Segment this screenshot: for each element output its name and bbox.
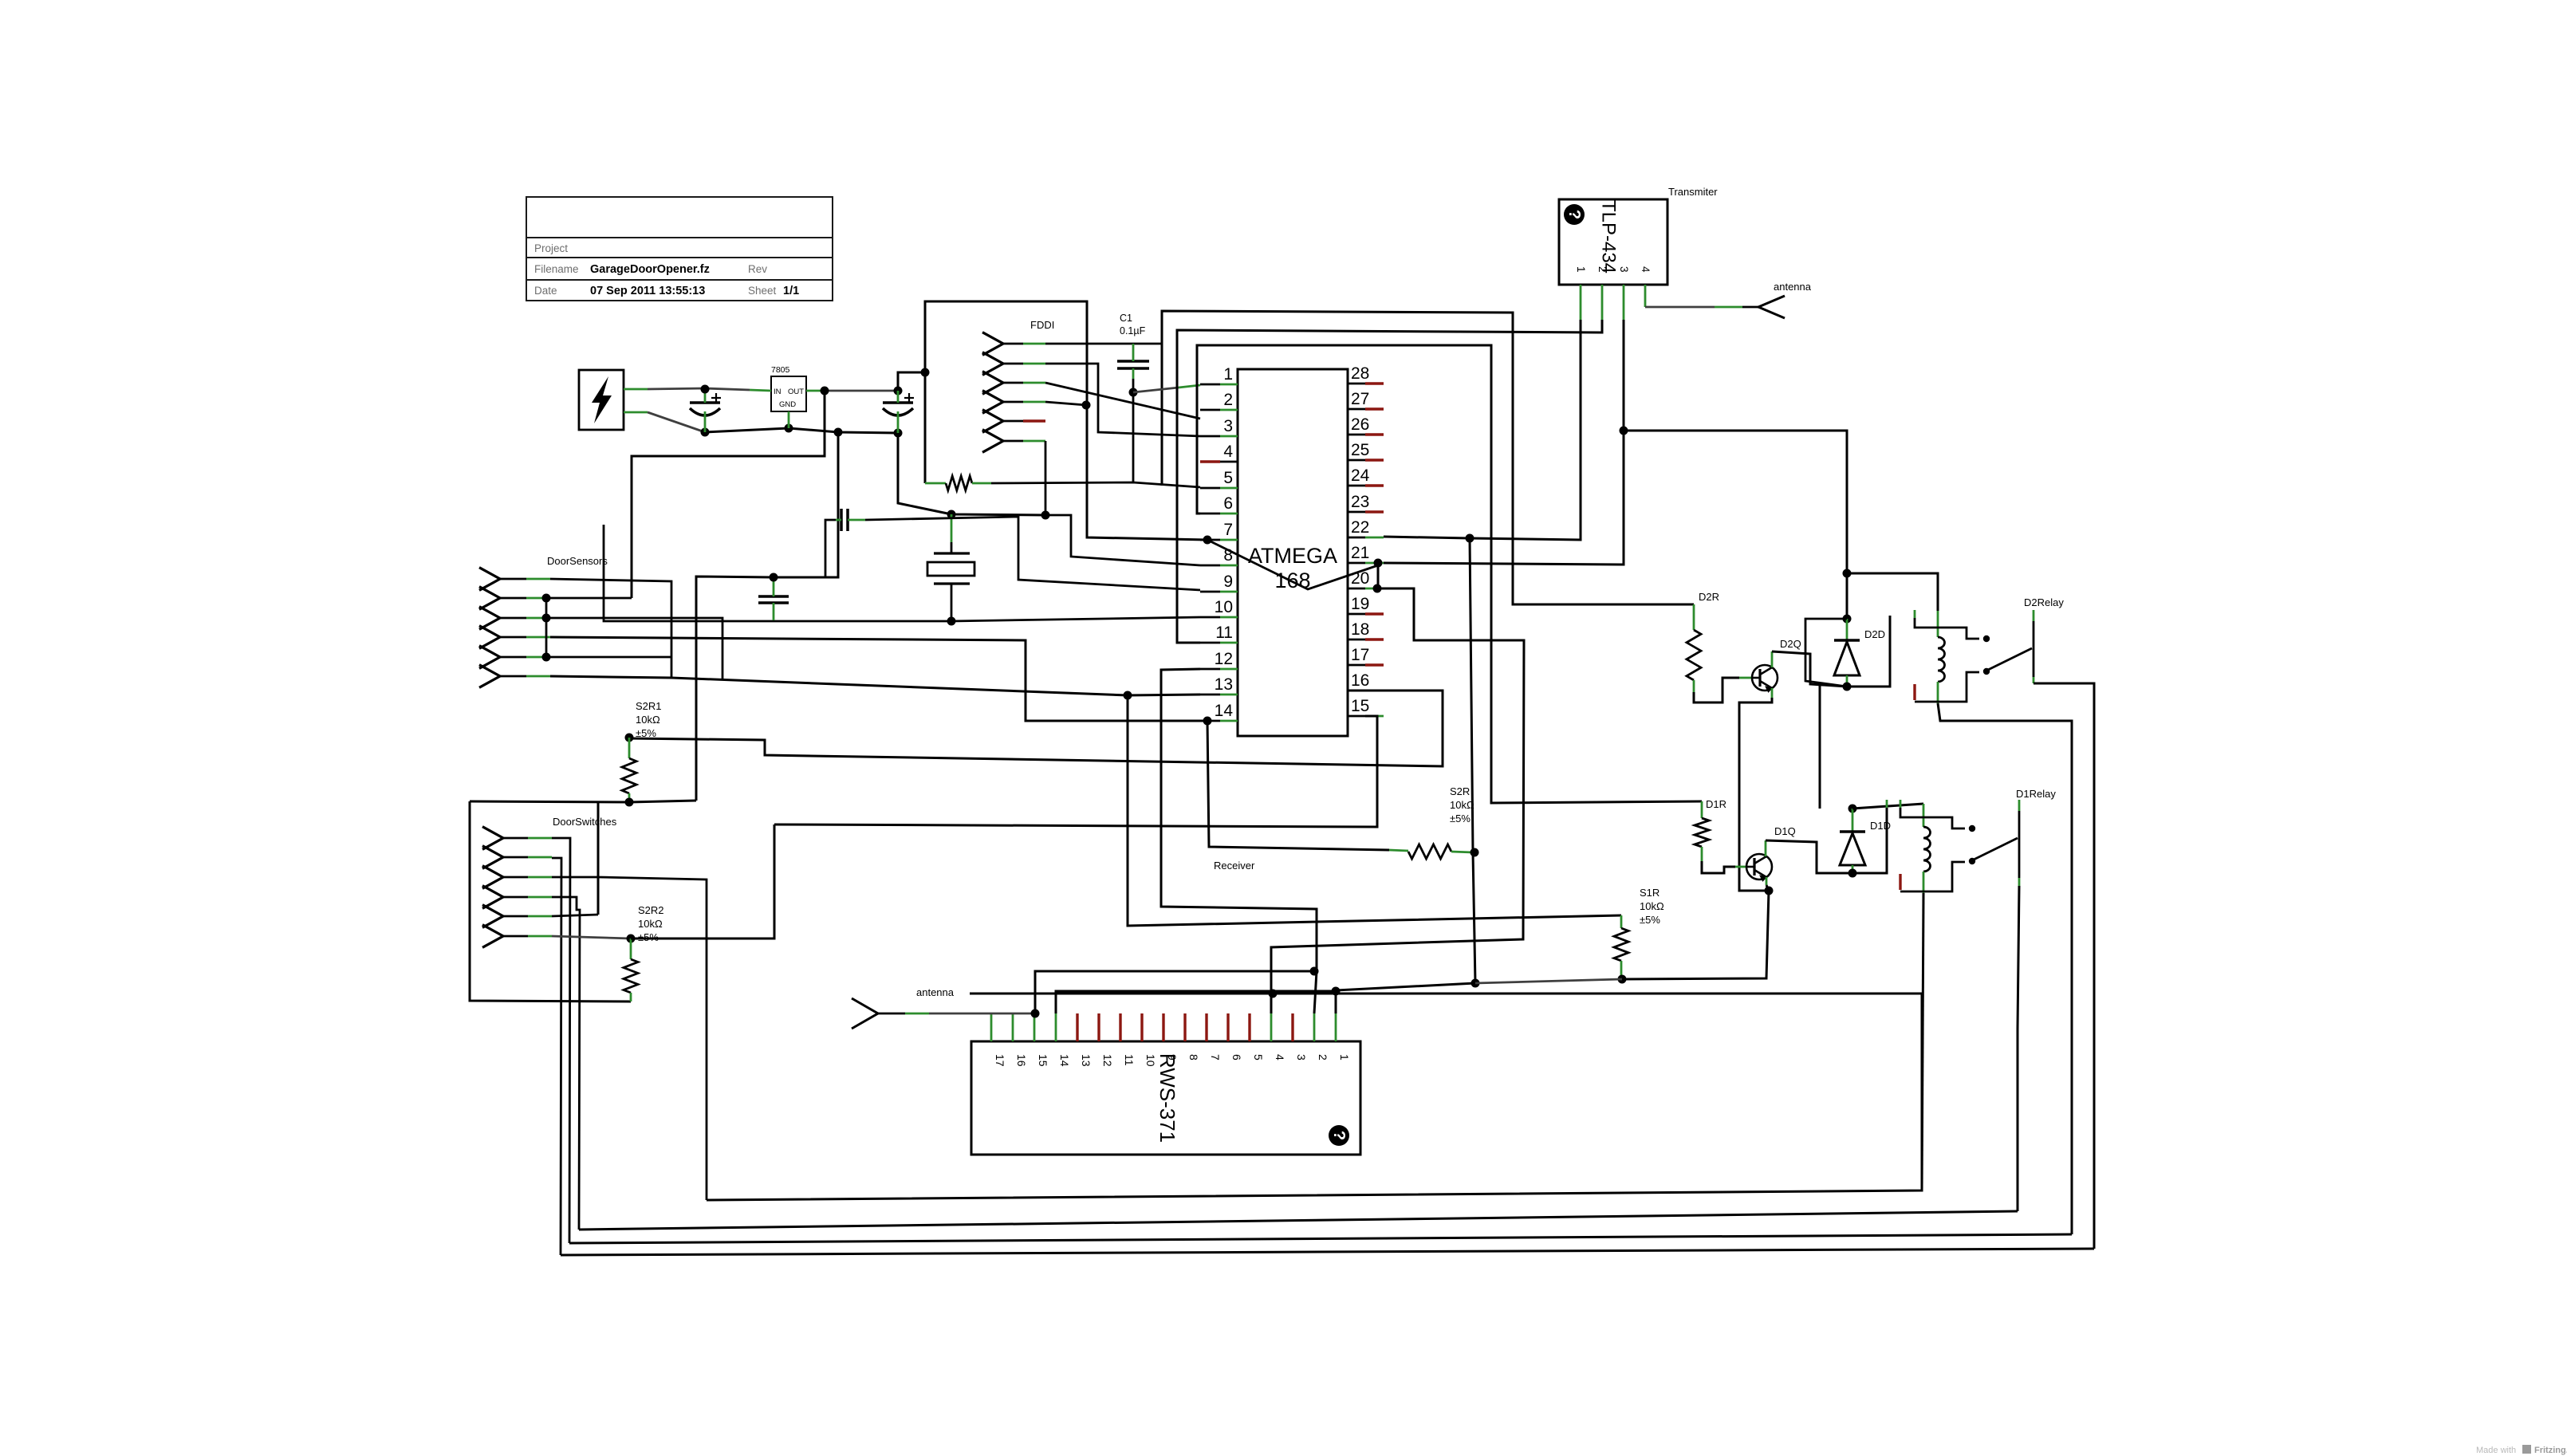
ATMEGA pin 13 bbox=[1200, 694, 1220, 696]
ic TLP-434 transmitter bbox=[1559, 199, 1667, 285]
wire TLP pin4 to antenna bbox=[1645, 306, 1715, 309]
wire RWS pin1 riser to D1Q emitter line bbox=[1336, 983, 1475, 1013]
ATMEGA pin 20 bbox=[1348, 588, 1365, 590]
svg-text:25: 25 bbox=[1351, 441, 1369, 459]
wire pin21 link down to pin20 bbox=[1373, 584, 1382, 593]
DoorSensors row5 wire bbox=[542, 653, 551, 662]
svg-text:OUT: OUT bbox=[788, 388, 804, 396]
wire ATMEGA pin21 to TLP pin3 bbox=[1384, 431, 1624, 565]
svg-text:16: 16 bbox=[1015, 1054, 1028, 1067]
svg-text:antenna: antenna bbox=[916, 986, 955, 998]
bus bottom line 3 bbox=[569, 1234, 2072, 1243]
ic RWS-371 receiver bbox=[971, 1041, 1360, 1155]
svg-text:±5%: ±5% bbox=[1640, 914, 1660, 926]
wire D1Q collector to D1D bottom bbox=[1765, 840, 1767, 856]
wire RWS pin15 hook to pin2 riser bbox=[1035, 971, 1314, 1013]
wire pin22 branch down through S2R junction bbox=[1470, 538, 1475, 983]
wire D2D bottom to relay pin bbox=[1847, 616, 1890, 687]
relay D2 armature bbox=[1986, 648, 2032, 671]
resistor S2R1 bbox=[625, 734, 634, 742]
svg-text:GarageDoorOpener.fz: GarageDoorOpener.fz bbox=[590, 263, 710, 276]
DoorSensors pin 2 bbox=[479, 587, 500, 610]
bus bottom line 2 bbox=[579, 1211, 2018, 1230]
DoorSwitches row4 wire down to bus L2 bbox=[552, 897, 580, 1230]
svg-text:RWS-371: RWS-371 bbox=[1156, 1053, 1179, 1143]
svg-text:15: 15 bbox=[1037, 1054, 1049, 1067]
svg-text:13: 13 bbox=[1215, 675, 1233, 694]
ATMEGA pin 6 bbox=[1200, 513, 1220, 515]
wire C4 top to cap C5 bbox=[774, 520, 836, 577]
DoorSensors pin 6 bbox=[479, 665, 500, 688]
wire D2D top left loop bbox=[1805, 619, 1847, 687]
capacitor C2 electrolytic bbox=[690, 401, 720, 404]
wire receiver antenna bbox=[878, 1013, 905, 1015]
svg-text:1: 1 bbox=[1223, 365, 1233, 384]
wire ATMEGA pin20 hook to RWS pin4 bbox=[1271, 588, 1524, 1013]
ATMEGA pin 4 bbox=[1200, 460, 1220, 462]
crystal X1 bbox=[934, 552, 970, 554]
svg-text:4: 4 bbox=[1640, 266, 1652, 273]
FDDI pin 2 bbox=[982, 352, 1003, 376]
svg-text:9: 9 bbox=[1223, 573, 1233, 591]
capacitor C3 electrolytic bbox=[883, 401, 913, 404]
ATMEGA pin 23 bbox=[1348, 511, 1365, 514]
ATMEGA pin 22 bbox=[1348, 537, 1365, 539]
relay D1 coil arcs bbox=[1923, 827, 1931, 872]
svg-text:Receiver: Receiver bbox=[1214, 860, 1255, 872]
svg-text:Made with: Made with bbox=[2476, 1446, 2516, 1455]
svg-text:Date: Date bbox=[534, 285, 557, 297]
svg-text:17: 17 bbox=[1351, 646, 1369, 664]
svg-text:16: 16 bbox=[1351, 671, 1369, 690]
svg-text:S2R: S2R bbox=[1450, 785, 1470, 797]
svg-text:Project: Project bbox=[534, 242, 568, 254]
svg-text:Filename: Filename bbox=[534, 263, 579, 275]
svg-text:19: 19 bbox=[1351, 595, 1369, 613]
wire gnd branch to cap C4 bbox=[774, 432, 838, 577]
FDDI pin 1 bbox=[982, 333, 1003, 356]
svg-text:2: 2 bbox=[1597, 266, 1608, 273]
FDDI loop wire: left edge, top, right edge to ATMEGA pin7 bbox=[925, 301, 1207, 540]
svg-text:10kΩ: 10kΩ bbox=[1450, 799, 1474, 811]
FDDI row1 wire bbox=[1045, 343, 1162, 345]
DoorSensors pin 1 bbox=[479, 568, 500, 591]
DoorSensors rows 2-3-5 link bbox=[545, 598, 548, 657]
title block frame bbox=[526, 197, 833, 301]
ATMEGA pin 11 bbox=[1200, 642, 1220, 644]
wire ATMEGA pin7 diagonal to pin21 bbox=[1203, 536, 1212, 545]
svg-text:10kΩ: 10kΩ bbox=[636, 714, 660, 726]
FDDI pin 6 bbox=[982, 430, 1003, 453]
wire cap C2 bottom stub bbox=[704, 411, 707, 432]
svg-text:4: 4 bbox=[1223, 443, 1233, 461]
svg-text:antenna: antenna bbox=[1774, 281, 1812, 293]
wire D1Q emitter junction bbox=[1766, 877, 1768, 885]
DoorSwitches pin 4 bbox=[482, 886, 503, 909]
svg-text:S2R1: S2R1 bbox=[636, 700, 662, 712]
FDDI row6 wire down to gnd rail bbox=[1045, 441, 1047, 514]
svg-text:28: 28 bbox=[1351, 364, 1369, 383]
svg-text:D1R: D1R bbox=[1706, 798, 1726, 810]
DoorSwitches pin 3 bbox=[482, 866, 503, 889]
svg-text:13: 13 bbox=[1080, 1054, 1093, 1067]
svg-text:DoorSwitches: DoorSwitches bbox=[553, 816, 617, 828]
wire D1 coil bottom to bus L1 bbox=[1922, 893, 1923, 1191]
wire D1D bottom to relay pin bbox=[1852, 808, 1887, 873]
wire 1246 line bbox=[970, 993, 1923, 995]
svg-text:Rev: Rev bbox=[748, 263, 767, 275]
svg-text:Transmiter: Transmiter bbox=[1668, 186, 1718, 198]
svg-text:Sheet: Sheet bbox=[748, 285, 777, 297]
svg-text:?: ? bbox=[1330, 1131, 1348, 1140]
ATMEGA pin 26 bbox=[1348, 434, 1365, 436]
wire ATMEGA pin16 hook to S2R1 bbox=[629, 691, 1443, 766]
ATMEGA pin 21 bbox=[1348, 562, 1365, 565]
wire 7805 OUT rail bbox=[806, 390, 825, 392]
wire gnd down to crystal rail bbox=[898, 433, 1045, 515]
wire cap C3 bottom stub bbox=[897, 411, 900, 433]
wire C1 bottom to pin5 line bbox=[1132, 379, 1135, 482]
wire rail riser to C4 gnd bbox=[696, 576, 774, 801]
wire 5V loop to DoorSensors row1 bbox=[632, 391, 825, 598]
wire D2 common down to bus L4 bbox=[2034, 683, 2094, 1249]
ground rail bbox=[705, 428, 898, 433]
wire ATMEGA pin22 to TLP pin1 bbox=[1384, 320, 1581, 540]
svg-text:S2R2: S2R2 bbox=[638, 904, 664, 916]
wire gnd rail diagonal to ATMEGA pin8 bbox=[1045, 515, 1200, 565]
wire cap C2 top stub bbox=[704, 389, 707, 403]
wire DoorSensors row4 to ATMEGA pin14 bbox=[1203, 717, 1212, 726]
FDDI pin 5 bbox=[982, 410, 1003, 433]
svg-text:D2Q: D2Q bbox=[1780, 638, 1801, 650]
svg-text:07 Sep 2011 13:55:13: 07 Sep 2011 13:55:13 bbox=[590, 285, 705, 297]
resistor D2R 10k bbox=[1693, 604, 1695, 630]
ATMEGA pin 16 bbox=[1348, 690, 1365, 692]
wire D2Q collector to D2D bottom bbox=[1771, 651, 1774, 667]
DoorSwitches pin 6 bbox=[482, 925, 503, 948]
relay D1 unconnected pin bbox=[1899, 874, 1901, 890]
ATMEGA pin 27 bbox=[1348, 408, 1365, 411]
svg-text:15: 15 bbox=[1351, 697, 1369, 715]
ATMEGA pin 17 bbox=[1348, 664, 1365, 667]
wire resistor to ATMEGA pin5 bbox=[991, 482, 1200, 487]
svg-text:17: 17 bbox=[994, 1054, 1006, 1067]
svg-text:0.1µF: 0.1µF bbox=[1120, 325, 1146, 336]
DoorSwitches pin 2 bbox=[482, 846, 503, 869]
wire D1D top to relay coil bbox=[1852, 804, 1923, 809]
FDDI pin 3 bbox=[982, 372, 1003, 395]
ATMEGA pin 28 bbox=[1348, 383, 1365, 385]
relay D1Relay coil bbox=[1923, 804, 1925, 827]
svg-text:4: 4 bbox=[1274, 1054, 1286, 1061]
svg-text:D2Relay: D2Relay bbox=[2024, 596, 2064, 608]
wire crystal bottom to ATMEGA pin10 bbox=[951, 617, 1200, 621]
gray wire S2R junction to S1R bottom bbox=[1475, 979, 1622, 983]
svg-text:3: 3 bbox=[1618, 266, 1630, 273]
svg-text:24: 24 bbox=[1351, 466, 1370, 485]
resistor D1R 10k bbox=[1701, 801, 1703, 818]
relay D2 common pin bbox=[2033, 610, 2035, 621]
ATMEGA pin 1 bbox=[1200, 384, 1220, 386]
svg-text:DoorSensors: DoorSensors bbox=[547, 555, 608, 567]
svg-text:22: 22 bbox=[1351, 518, 1369, 537]
capacitor C5 22pF bbox=[840, 509, 843, 531]
voltage regulator 7805 bbox=[771, 376, 806, 411]
wire cap C3 top stub bbox=[897, 391, 900, 403]
svg-text:1/1: 1/1 bbox=[783, 285, 799, 297]
svg-text:2: 2 bbox=[1223, 391, 1233, 409]
svg-text:S1R: S1R bbox=[1640, 887, 1659, 899]
FDDI row2 wire to ATMEGA pin3 bbox=[1045, 364, 1200, 436]
svg-text:10: 10 bbox=[1215, 598, 1233, 616]
wire rail drop to DoorSwitches row3 bbox=[597, 802, 600, 915]
resistor S1R zigzag bbox=[1614, 928, 1628, 961]
svg-text:7: 7 bbox=[1223, 521, 1233, 539]
DoorSwitches box loop bbox=[470, 801, 631, 1001]
bus bottom line 1 bbox=[707, 994, 1922, 1200]
DoorSensors row3 wire bbox=[542, 614, 551, 623]
transistor D2Q bbox=[1752, 665, 1778, 691]
relay D2 frame bottom bbox=[1915, 672, 1979, 702]
wire 7805 GND stub bbox=[788, 411, 790, 428]
svg-text:3: 3 bbox=[1223, 417, 1233, 435]
svg-text:D2R: D2R bbox=[1699, 591, 1719, 603]
relay D2 unconnected pin bbox=[1913, 684, 1915, 700]
svg-text:27: 27 bbox=[1351, 390, 1369, 408]
FDDI pin 4 bbox=[982, 391, 1003, 414]
relay D1 frame bottom bbox=[1900, 862, 1965, 891]
svg-text:9: 9 bbox=[1166, 1054, 1179, 1061]
ATMEGA pin 3 bbox=[1200, 435, 1220, 438]
DoorSensors pin 4 bbox=[479, 626, 500, 649]
ATMEGA pin 19 bbox=[1348, 613, 1365, 616]
DoorSwitches pin 1 bbox=[482, 827, 503, 850]
wire D1 common down to bus L2 bbox=[2018, 886, 2019, 1211]
wire ATMEGA pin12 to RWS pin2 bbox=[1161, 669, 1317, 1013]
svg-text:10kΩ: 10kΩ bbox=[638, 918, 663, 930]
svg-text:26: 26 bbox=[1351, 415, 1369, 434]
DoorSensors row1 wire bbox=[550, 579, 671, 678]
svg-text:D2D: D2D bbox=[1864, 628, 1885, 640]
DoorSwitches pin 5 bbox=[482, 905, 503, 928]
ic U1 ATMEGA 168 bbox=[1238, 369, 1348, 736]
svg-text:D1Relay: D1Relay bbox=[2016, 788, 2056, 800]
wire D2R bottom to D2Q base bbox=[1694, 678, 1739, 702]
wire power minus diagonal bbox=[624, 411, 648, 414]
ATMEGA pin 7 bbox=[1200, 539, 1220, 541]
svg-text:1: 1 bbox=[1575, 266, 1587, 273]
resistor S2R bbox=[1389, 850, 1408, 851]
svg-text:±5%: ±5% bbox=[636, 727, 656, 739]
wire S2R2 junction riser to 1034 run bbox=[631, 824, 774, 939]
svg-text:7805: 7805 bbox=[771, 365, 790, 375]
svg-text:IN: IN bbox=[774, 388, 782, 396]
svg-text:3: 3 bbox=[1295, 1054, 1308, 1061]
DoorSwitches row6 wire to S2R2 (gray) bbox=[552, 936, 631, 939]
svg-text:23: 23 bbox=[1351, 493, 1369, 511]
wire TLP pin3 riser bbox=[1623, 320, 1625, 431]
svg-text:7: 7 bbox=[1209, 1054, 1222, 1061]
ATMEGA pin 25 bbox=[1348, 459, 1365, 462]
ATMEGA pin 12 bbox=[1200, 668, 1220, 671]
DoorSwitches row2 wire down to bus L4 bbox=[552, 858, 561, 1255]
svg-text:D1Q: D1Q bbox=[1774, 825, 1796, 837]
svg-text:21: 21 bbox=[1351, 544, 1369, 562]
resistor R series FDDI bbox=[925, 482, 946, 485]
wire ATMEGA pin6 hook to D1R bbox=[1197, 345, 1702, 803]
svg-text:?: ? bbox=[1565, 210, 1583, 219]
svg-text:GND: GND bbox=[779, 400, 796, 409]
relay D1 frame top bbox=[1900, 800, 1902, 808]
svg-text:12: 12 bbox=[1101, 1054, 1114, 1067]
wire TLP pin3 down to relay net bbox=[1624, 431, 1938, 611]
relay D1 common pin bbox=[2018, 800, 2021, 811]
svg-text:1: 1 bbox=[1338, 1054, 1351, 1061]
svg-text:ATMEGA: ATMEGA bbox=[1248, 544, 1337, 568]
wire D2D bottom branch down to D1D top bbox=[1819, 685, 1821, 809]
svg-text:Fritzing.org: Fritzing.org bbox=[2534, 1446, 2567, 1455]
DoorSwitches row3 wire to bus L1 bbox=[552, 877, 707, 1200]
svg-text:10: 10 bbox=[1144, 1054, 1157, 1067]
relay D2Relay coil bbox=[1937, 611, 1939, 637]
ATMEGA pin 18 bbox=[1348, 639, 1365, 641]
wire ATMEGA pin15 to 1034 run bbox=[774, 716, 1377, 827]
wire OUT rail to FDDI loop bbox=[898, 372, 925, 391]
wire S2R1 bottom rail bbox=[470, 801, 696, 802]
diode D1D symbol bbox=[1840, 830, 1865, 832]
ATMEGA pin 15 bbox=[1348, 715, 1365, 718]
bus bottom line 4 bbox=[561, 1249, 2094, 1255]
ATMEGA pin 2 bbox=[1200, 409, 1220, 411]
svg-text:FDDI: FDDI bbox=[1030, 319, 1054, 331]
wire D2Q emitter down to D1Q emitter bbox=[1771, 688, 1774, 698]
power supply J1 bbox=[579, 370, 624, 430]
ATMEGA pin 5 bbox=[1200, 487, 1220, 490]
FDDI row3 wire diagonal to ATMEGA pin2 bbox=[1045, 383, 1200, 419]
resistor S2R2 bbox=[627, 935, 636, 943]
svg-text:C1: C1 bbox=[1120, 313, 1132, 324]
ATMEGA pin 8 bbox=[1200, 565, 1220, 567]
ATMEGA pin 9 bbox=[1200, 591, 1220, 593]
svg-text:12: 12 bbox=[1215, 650, 1233, 668]
relay D2 coil arcs bbox=[1938, 637, 1945, 682]
wire pin14 down to S2R bbox=[1207, 721, 1389, 850]
DoorSensors pin 5 bbox=[479, 646, 500, 669]
wire D2 coil bottom to bus L3 bbox=[1938, 703, 2072, 1234]
relay D2 frame top bbox=[1914, 610, 1916, 618]
svg-text:14: 14 bbox=[1215, 702, 1234, 720]
wire D1R bottom to D1Q base bbox=[1702, 861, 1735, 873]
relay D1 armature bbox=[1972, 838, 2018, 860]
DoorSensors pin 3 bbox=[479, 607, 500, 630]
ATMEGA pin 10 bbox=[1200, 616, 1220, 619]
wire D2D top branch bbox=[1846, 573, 1848, 619]
svg-text:18: 18 bbox=[1351, 620, 1369, 639]
svg-text:5: 5 bbox=[1252, 1054, 1265, 1061]
wire RWS pin14 riser bbox=[1056, 991, 1336, 1013]
FDDI row4 wire to loop edge bbox=[1045, 402, 1086, 405]
DoorSwitches row5 wire to rail drop bbox=[552, 915, 598, 916]
transistor D1Q bbox=[1746, 854, 1772, 880]
ATMEGA pin 24 bbox=[1348, 485, 1365, 487]
svg-text:8: 8 bbox=[1187, 1054, 1200, 1061]
resistor D2R zigzag bbox=[1687, 630, 1701, 680]
svg-text:TLP-434: TLP-434 bbox=[1598, 200, 1620, 273]
DoorSensors row2 wire to 5V bbox=[542, 594, 551, 603]
hook FDDI row1 over top to D2R bbox=[1162, 311, 1694, 604]
svg-text:11: 11 bbox=[1215, 624, 1233, 642]
resistor S2R2 zigzag bbox=[624, 959, 638, 993]
svg-text:6: 6 bbox=[1230, 1054, 1243, 1061]
resistor S2R zigzag bbox=[1408, 844, 1451, 859]
resistor R zigzag bbox=[946, 476, 972, 490]
svg-text:2: 2 bbox=[1317, 1054, 1329, 1061]
DoorSwitches row1 wire down to bus L3 bbox=[552, 838, 570, 1243]
capacitor C4 22pF bbox=[758, 595, 789, 598]
resistor D1R zigzag bbox=[1695, 818, 1709, 847]
svg-text:5: 5 bbox=[1223, 469, 1233, 487]
svg-text:±5%: ±5% bbox=[1450, 813, 1471, 824]
svg-text:10kΩ: 10kΩ bbox=[1640, 900, 1664, 912]
resistor S2R1 zigzag bbox=[622, 758, 636, 793]
svg-text:14: 14 bbox=[1058, 1054, 1071, 1067]
wire power to 7805 IN bbox=[624, 388, 648, 391]
wire C1 tap to ATMEGA pin1 (gray) bbox=[1133, 388, 1179, 392]
wire pin13 branch down to S1R bbox=[1128, 695, 1621, 926]
wire DoorSensors row6 to ATMEGA pin13 bbox=[550, 676, 1200, 695]
svg-text:11: 11 bbox=[1123, 1054, 1136, 1066]
wire crystal gnd left bbox=[604, 525, 951, 621]
svg-text:6: 6 bbox=[1223, 494, 1233, 513]
wire TLP pin2 hook to ATMEGA pin11 bbox=[1177, 320, 1602, 643]
wire C5 right to ATMEGA pin9 bbox=[865, 517, 1200, 590]
resistor S1R bbox=[1620, 915, 1623, 928]
diode D2D symbol bbox=[1834, 639, 1860, 641]
wire D1Q emitter down to S1R line bbox=[1622, 891, 1769, 979]
ATMEGA pin 14 bbox=[1200, 720, 1220, 722]
